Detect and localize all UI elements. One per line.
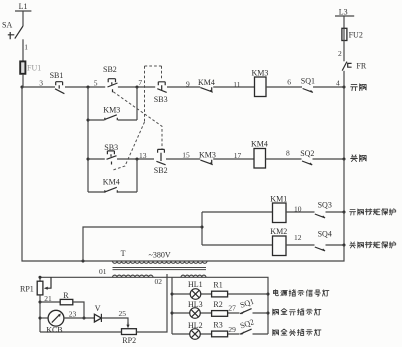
lamp HL2 xyxy=(190,329,201,340)
dashed link bar above SB3 xyxy=(145,65,162,67)
svg-text:7: 7 xyxy=(138,78,142,87)
svg-text:SQ4: SQ4 xyxy=(318,230,332,239)
label SQ2 lamp xyxy=(239,317,255,330)
svg-text:KM2: KM2 xyxy=(270,227,287,236)
wire coil KM4 to SQ2 xyxy=(266,158,302,160)
label 23 xyxy=(69,309,77,318)
KM3 self-holding branch wire xyxy=(88,87,137,120)
junction lamp row2 left xyxy=(170,311,173,314)
terminal L3 tick xyxy=(335,15,354,17)
transformer core xyxy=(113,268,207,270)
svg-text:SQ2: SQ2 xyxy=(239,317,255,330)
RP2 wiper arrow xyxy=(126,323,129,329)
label R2 xyxy=(213,300,222,309)
connector rows34 to primary xyxy=(83,227,202,261)
svg-text:10: 10 xyxy=(294,204,302,213)
rheostat RP2 xyxy=(122,329,137,335)
label 13 xyxy=(139,151,147,160)
label FR xyxy=(356,61,366,70)
label 1 xyxy=(24,42,28,51)
lamp HL1 xyxy=(190,289,201,300)
label 9 xyxy=(186,79,190,88)
junction lamp row1 right xyxy=(266,292,269,295)
label 27 xyxy=(228,304,236,313)
label L1 xyxy=(19,2,28,11)
transformer secondary winding left xyxy=(113,275,154,277)
label valve-open-indicator-lamp xyxy=(273,309,321,316)
wire SQ3 to bus xyxy=(326,211,345,213)
meter KCB xyxy=(48,310,64,326)
KM4 self-holding branch wire xyxy=(88,191,137,193)
label RP1 xyxy=(20,285,34,294)
junction secondary-RP1 xyxy=(38,276,41,279)
svg-text:3: 3 xyxy=(39,78,43,87)
dashed link diagonal SB2 xyxy=(113,92,162,149)
wire KM3 contact to coil KM4 xyxy=(213,158,254,160)
svg-text:02: 02 xyxy=(155,277,163,286)
coil KM3 xyxy=(255,77,267,97)
label V xyxy=(95,304,101,313)
row4 wire to coil KM2 xyxy=(202,244,273,246)
label HL1 xyxy=(188,280,203,289)
wire coil KM3 to SQ1 xyxy=(266,86,302,88)
resistor R xyxy=(60,299,73,304)
svg-text:FU2: FU2 xyxy=(349,30,363,39)
resistor R1 xyxy=(212,291,228,297)
svg-text:FU1: FU1 xyxy=(27,64,41,73)
wire node21 to resistor R xyxy=(40,301,60,303)
svg-text:13: 13 xyxy=(139,151,147,160)
resistor R3 xyxy=(212,331,228,337)
label KM4 coil xyxy=(251,140,268,149)
transformer T primary winding xyxy=(113,261,208,263)
secondary left wire xyxy=(40,277,206,281)
wire FU1 to node 3 xyxy=(22,74,24,87)
svg-text:R2: R2 xyxy=(213,300,222,309)
wire FU2 to FR xyxy=(343,41,345,62)
label KM3 row2 xyxy=(199,150,216,159)
label close-valve xyxy=(351,155,366,162)
label 8 xyxy=(286,149,290,158)
svg-text:27: 27 xyxy=(228,304,236,313)
label KM3 branch xyxy=(103,106,120,115)
wire SQ1 to node 4 xyxy=(313,86,344,88)
wire SB2 row2 to KM3 contact xyxy=(166,158,200,160)
wire SB3 row2 to node 13 xyxy=(117,158,154,160)
wire SB1 to node 5 xyxy=(65,86,105,88)
label SB2 row2 xyxy=(154,166,168,175)
rheostat RP1 xyxy=(37,281,43,295)
diode V xyxy=(94,314,101,322)
vertical from node 5 down xyxy=(87,87,89,192)
svg-text:RP1: RP1 xyxy=(20,285,34,294)
svg-text:HL1: HL1 xyxy=(188,280,203,289)
dashed link SB3 head xyxy=(161,66,163,80)
svg-text:R3: R3 xyxy=(213,321,222,330)
svg-text:SA: SA xyxy=(2,21,12,30)
wire SQ2 to bus xyxy=(313,158,345,160)
fuse FU2 xyxy=(342,28,347,40)
label open-torque-protect xyxy=(350,209,396,215)
svg-text:KM3: KM3 xyxy=(252,69,269,78)
label 15 xyxy=(182,151,190,160)
node 23 junction xyxy=(82,316,85,319)
lamp row1 wire xyxy=(172,293,268,295)
svg-text:6: 6 xyxy=(287,77,291,86)
svg-text:23: 23 xyxy=(69,309,77,318)
svg-text:2: 2 xyxy=(338,49,342,58)
dashed link diagonal SB3 to row2 xyxy=(112,122,145,171)
limit switch SQ2 lamp contact xyxy=(240,329,252,334)
label R3 xyxy=(213,321,222,330)
svg-text:T: T xyxy=(121,249,126,258)
bottom wire xyxy=(40,274,167,332)
svg-text:KM4: KM4 xyxy=(251,140,268,149)
label FU2 xyxy=(349,30,363,39)
contact KM4 NC row1 xyxy=(200,87,212,92)
node 5 junction xyxy=(86,85,89,88)
svg-text:12: 12 xyxy=(294,233,302,242)
secondary right wire to lamp bus xyxy=(206,277,268,334)
svg-text:R1: R1 xyxy=(213,281,222,290)
limit switch SQ1 lamp contact xyxy=(240,309,252,314)
coil KM4 xyxy=(254,149,266,169)
label 17 xyxy=(234,151,242,160)
svg-text:KM3: KM3 xyxy=(199,150,216,159)
thermal relay FR contact xyxy=(342,62,351,71)
label 3 xyxy=(39,78,43,87)
wire FR to node 4 xyxy=(343,71,345,87)
limit switch SQ4 contact xyxy=(315,247,325,251)
pushbutton SB3 NC contact row1 xyxy=(157,82,166,93)
wire R down to node 23 xyxy=(73,302,84,318)
svg-text:SB3: SB3 xyxy=(154,95,168,104)
wire KM1 to SQ3 xyxy=(286,211,315,213)
svg-text:SB2: SB2 xyxy=(103,65,117,74)
label KM1 coil xyxy=(270,195,287,204)
svg-text:FR: FR xyxy=(356,61,366,70)
label 11 xyxy=(233,80,240,89)
left bus down from row1 xyxy=(22,87,113,261)
wire SA to FU1 xyxy=(22,39,24,61)
node 13 junction xyxy=(135,157,138,160)
label SA xyxy=(2,21,12,30)
wire diode to node 25 corner xyxy=(101,318,128,323)
row2 wire: node down to SB3 xyxy=(88,158,105,160)
node 4 junction xyxy=(342,85,345,88)
label SQ3 xyxy=(318,201,332,210)
node close-valve junction xyxy=(342,157,345,160)
pushbutton SB2 NO contact xyxy=(108,79,118,93)
svg-text:RP2: RP2 xyxy=(122,336,136,345)
label KM3 coil xyxy=(252,69,269,78)
label close-torque-protect xyxy=(350,242,396,248)
lamp row2 wire xyxy=(172,312,268,314)
label 6 xyxy=(287,77,291,86)
node 3 junction xyxy=(20,85,23,88)
svg-text:~380V: ~380V xyxy=(149,251,171,260)
left vertical node21 down xyxy=(39,302,41,332)
svg-text:V: V xyxy=(95,304,101,313)
label SB3 row1 xyxy=(154,95,168,104)
secondary tap wire 02 xyxy=(171,277,173,334)
label RP2 xyxy=(122,336,136,345)
svg-text:5: 5 xyxy=(94,78,98,87)
junction lamp row2 right xyxy=(266,311,269,314)
svg-text:KM4: KM4 xyxy=(198,78,215,87)
label SQ2 xyxy=(300,149,314,158)
resistor R2 xyxy=(212,311,228,317)
label 4 xyxy=(336,79,340,88)
node close-torque junction xyxy=(342,243,345,246)
pushbutton SB3 NO contact row2 xyxy=(107,151,117,165)
svg-text:SB2: SB2 xyxy=(154,166,168,175)
junction left-KCB xyxy=(38,316,41,319)
svg-text:9: 9 xyxy=(186,79,190,88)
label 2 xyxy=(338,49,342,58)
svg-text:KM4: KM4 xyxy=(103,178,120,187)
label KCB xyxy=(46,326,62,335)
label HL2 xyxy=(188,321,203,330)
right bus down to primary wire xyxy=(206,245,344,261)
RP1 wiper arrow xyxy=(44,277,51,290)
svg-text:L3: L3 xyxy=(339,7,348,16)
label KM2 coil xyxy=(270,227,287,236)
label 7 xyxy=(138,78,142,87)
node 21 junction xyxy=(38,300,41,303)
contact KM4 NO self-hold xyxy=(105,187,118,192)
contact KM3 NO self-hold xyxy=(105,115,118,120)
wire KM2 to SQ4 xyxy=(286,244,315,246)
label 01 xyxy=(99,267,107,276)
svg-text:21: 21 xyxy=(44,294,52,303)
junction lamp row1 left xyxy=(170,292,173,295)
label 21 xyxy=(44,294,52,303)
svg-text:SQ2: SQ2 xyxy=(300,149,314,158)
label 02 xyxy=(155,277,163,286)
lamp row3 wire xyxy=(172,333,268,335)
wire KM4 contact to coil KM3 xyxy=(213,86,254,88)
svg-text:15: 15 xyxy=(182,151,190,160)
wire SB3 to KM4 contact xyxy=(167,86,200,88)
label 10 xyxy=(294,204,302,213)
node 7 junction xyxy=(135,85,138,88)
terminal L1 tick xyxy=(15,10,31,12)
svg-text:11: 11 xyxy=(233,80,240,89)
pushbutton SB2 NC contact row2 xyxy=(156,149,165,164)
label KM4 row1 xyxy=(198,78,215,87)
right bus row2 down to row3 xyxy=(343,159,345,212)
label 380V xyxy=(149,251,171,260)
pushbutton SB1 xyxy=(55,82,64,94)
coil KM2 xyxy=(273,236,287,256)
transformer secondary winding right xyxy=(181,275,206,277)
svg-text:25: 25 xyxy=(119,309,127,318)
right bus row3 to row4 xyxy=(343,212,345,245)
svg-text:SQ1: SQ1 xyxy=(239,297,255,310)
svg-text:HL2: HL2 xyxy=(188,321,203,330)
label KM4 branch xyxy=(103,178,120,187)
fuse FU1 xyxy=(20,61,25,73)
svg-text:HL3: HL3 xyxy=(188,300,203,309)
label open-valve xyxy=(351,84,366,91)
wire KCB to node 23 xyxy=(64,317,95,319)
label SB1 xyxy=(50,71,64,80)
wire to meter KCB xyxy=(40,317,48,319)
svg-text:SB1: SB1 xyxy=(50,71,64,80)
label R xyxy=(63,291,69,300)
svg-text:1: 1 xyxy=(24,42,28,51)
junction on primary wire xyxy=(81,259,84,262)
limit switch SQ2 contact xyxy=(302,161,312,165)
vertical from node13 down xyxy=(136,159,138,192)
svg-text:01: 01 xyxy=(99,267,107,276)
label valve-closed-indicator-lamp xyxy=(273,329,321,336)
label SQ4 xyxy=(318,230,332,239)
junction node5-row2 xyxy=(86,157,89,160)
svg-text:R: R xyxy=(63,291,69,300)
coil KM1 xyxy=(273,203,287,223)
label power-indicator-lamp xyxy=(273,290,329,297)
node open-torque junction xyxy=(342,210,345,213)
wire row1: node3 to SB1 xyxy=(22,86,55,88)
wire SB2 to node 7 xyxy=(118,86,155,88)
right bus node4 down to row2 xyxy=(343,87,345,159)
svg-text:KCB: KCB xyxy=(46,326,62,335)
svg-text:KM3: KM3 xyxy=(103,106,120,115)
svg-text:L1: L1 xyxy=(19,2,28,11)
contact KM3 NC row2 xyxy=(200,160,212,165)
label SB2 row1 xyxy=(103,65,117,74)
limit switch SQ3 contact xyxy=(315,214,325,218)
svg-text:8: 8 xyxy=(286,149,290,158)
svg-text:SB3: SB3 xyxy=(104,143,118,152)
lamp HL3 xyxy=(190,308,201,319)
row3 left vertical xyxy=(201,212,203,245)
label 25 xyxy=(119,309,127,318)
svg-text:29: 29 xyxy=(228,325,236,334)
label SB3 row2 xyxy=(104,143,118,152)
dashed link vertical SB3 xyxy=(144,66,146,122)
label L3 xyxy=(339,7,348,16)
label SQ1 lamp xyxy=(239,297,255,310)
svg-text:4: 4 xyxy=(336,79,340,88)
junction node5-KM3 branch xyxy=(86,118,89,121)
wire RP1 to node 21 xyxy=(39,295,41,302)
label R1 xyxy=(213,281,222,290)
limit switch SQ1 contact xyxy=(303,89,313,93)
label T xyxy=(121,249,126,258)
label 12 xyxy=(294,233,302,242)
wire L3 to FU2 xyxy=(343,16,345,28)
wire SQ4 to bus xyxy=(326,244,345,246)
svg-text:SQ3: SQ3 xyxy=(318,201,332,210)
svg-text:SQ1: SQ1 xyxy=(301,77,315,86)
wire L1 down to SA xyxy=(22,11,24,26)
switch SA xyxy=(8,26,23,39)
label 29 xyxy=(228,325,236,334)
svg-text:KM1: KM1 xyxy=(270,195,287,204)
label 5 xyxy=(94,78,98,87)
label HL3 xyxy=(188,300,203,309)
row3 wire to coil KM1 xyxy=(202,211,273,213)
label SQ1 xyxy=(301,77,315,86)
svg-text:17: 17 xyxy=(234,151,242,160)
label FU1 xyxy=(27,64,41,73)
junction rows34 xyxy=(200,225,203,228)
